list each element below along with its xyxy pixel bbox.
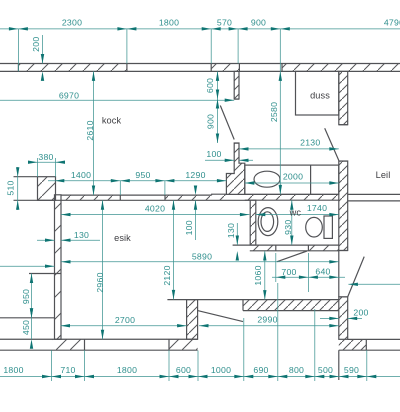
- ext top x=211.2: [210, 29, 212, 64]
- duss door jamb bottom: [339, 160, 348, 162]
- dim 100 band A line: [195, 200, 197, 240]
- corridor band jamb at door: [242, 300, 244, 311]
- svg-text:100: 100: [206, 149, 221, 159]
- dim 600 line: [217, 71, 219, 99]
- fixture: vanity sink ellipse: [254, 171, 280, 187]
- ext x=276 wc door: [275, 253, 277, 282]
- arrows dim 700/640: [276, 276, 286, 279]
- svg-text:800: 800: [289, 365, 304, 375]
- wall: esik bottom band hatch right pier: [169, 339, 198, 350]
- dim 1400/950/1290 chain line: [48, 180, 226, 182]
- svg-text:esik: esik: [114, 233, 131, 243]
- dim 2990 line: [199, 325, 339, 327]
- wall: Leil wall lower segment: [339, 297, 348, 339]
- arrows dim 1400/950/1290: [55, 179, 65, 182]
- wall: top exterior band outline: [0, 64, 400, 72]
- ext bottom x=366.8: [366, 350, 368, 381]
- wall: band B hatch: [245, 194, 339, 200]
- wall: wc left wall: [250, 200, 256, 245]
- svg-text:450: 450: [21, 320, 31, 335]
- window jamb far left: [17, 64, 19, 72]
- ext bottom x=84.5: [84, 350, 86, 381]
- svg-text:950: 950: [135, 170, 150, 180]
- svg-text:2960: 2960: [95, 272, 105, 292]
- svg-text:950: 950: [21, 289, 31, 304]
- arrow left room dim: [45, 265, 55, 268]
- wc door jamb left: [275, 245, 277, 251]
- ext bottom x=243.8: [243, 318, 245, 381]
- svg-text:500: 500: [318, 365, 333, 375]
- arrows dim 200 right: [329, 317, 339, 320]
- arrows dim 130: [45, 239, 55, 242]
- fixture: duss shower box: [296, 71, 339, 115]
- arrows dim 1060: [263, 251, 266, 261]
- arrows dim 380: [28, 161, 38, 164]
- window jamb W1 left: [126, 64, 128, 72]
- dim 5890 line: [61, 261, 339, 263]
- dim 6970 line: [0, 99, 234, 101]
- svg-text:930: 930: [283, 220, 293, 235]
- arrow dim 6970: [225, 99, 235, 102]
- wall: top band hatch pier 570: [211, 64, 239, 72]
- arrows bottom chain: [42, 375, 52, 378]
- kock door jamb bottom: [234, 142, 239, 144]
- fixture: vanity divider: [310, 165, 312, 194]
- wall: wc bottom band hatch right: [308, 245, 338, 251]
- arrows dim 510: [16, 167, 19, 177]
- svg-text:380: 380: [38, 152, 53, 162]
- arrows dim 900: [216, 99, 219, 109]
- dim 2000 line: [245, 182, 339, 184]
- arrows dim 2120: [172, 200, 175, 210]
- svg-text:4790: 4790: [384, 18, 400, 28]
- svg-text:590: 590: [344, 365, 359, 375]
- arrows dim 930: [290, 200, 293, 210]
- wall: corridor band hatch: [243, 300, 339, 311]
- svg-text:2000: 2000: [283, 171, 303, 181]
- svg-text:130: 130: [226, 223, 236, 238]
- svg-text:700: 700: [281, 267, 296, 277]
- wall: band A hatch right of door: [165, 195, 211, 200]
- wall: Leil partition lines to right: [348, 194, 400, 201]
- svg-text:1400: 1400: [71, 170, 91, 180]
- dim 1060 line: [264, 251, 266, 300]
- dim 100 kock wall lines: [205, 159, 253, 161]
- wall: Leil wall upper segment (top band to duss door): [339, 71, 348, 124]
- dim 1740 line: [256, 214, 339, 216]
- svg-text:200: 200: [31, 37, 41, 52]
- ext bottom x=51.5: [51, 350, 53, 381]
- wall: corridor band right of esik door outline: [167, 300, 338, 311]
- ext bottom x=198: [197, 351, 199, 382]
- dim 2960 line: [102, 200, 104, 339]
- arrows dim 100 band A: [194, 186, 197, 196]
- svg-text:690: 690: [253, 365, 268, 375]
- svg-text:2580: 2580: [269, 102, 279, 122]
- svg-text:900: 900: [206, 114, 216, 129]
- arrows dim 100 kock wall: [225, 159, 235, 162]
- arrows dim 2580: [279, 71, 282, 81]
- arrows dim 130 wc band: [236, 236, 239, 246]
- opening line left room upper: [29, 273, 61, 275]
- svg-text:200: 200: [353, 307, 368, 317]
- kock door jamb top: [234, 98, 239, 100]
- svg-text:1290: 1290: [185, 170, 205, 180]
- arrows dim 2610: [92, 71, 95, 81]
- dim to right of Leil door: [348, 283, 400, 285]
- wall: top band hatch right segment: [282, 64, 400, 72]
- ext x=55.5 block: [55, 158, 57, 177]
- arrows dim 4020: [61, 213, 71, 216]
- fixture: washing machine outer: [258, 208, 278, 236]
- duss door jamb top: [339, 124, 348, 126]
- wall: wc bottom band hatch left: [250, 245, 276, 251]
- wall: bottom right band outline: [339, 339, 400, 350]
- esik bottom window jamb right: [168, 339, 170, 350]
- arrows dim 2000: [245, 181, 255, 184]
- svg-text:2300: 2300: [62, 18, 82, 28]
- arrows dim 2700: [61, 324, 71, 327]
- svg-text:100: 100: [184, 220, 194, 235]
- svg-text:6970: 6970: [59, 90, 79, 100]
- esik bottom window jamb: [84, 339, 86, 350]
- ext x=37.5 block: [37, 158, 39, 177]
- wall: band A jog step: [212, 193, 227, 196]
- wall: kock right wall upper (above door): [234, 71, 239, 99]
- arrows dim 200 top: [41, 54, 44, 64]
- dim 4020 line: [61, 214, 249, 216]
- svg-text:710: 710: [60, 365, 75, 375]
- wall: esik bottom band hatch pier 710: [53, 339, 85, 350]
- wall: band A hatch left of door: [61, 195, 120, 200]
- dim 200 right lines: [320, 317, 362, 319]
- ext top x=18.4: [17, 29, 19, 72]
- arrows top chain: [9, 27, 19, 30]
- band A door jamb right: [164, 195, 166, 200]
- ext x=120.3 band A: [119, 181, 121, 195]
- svg-text:1000: 1000: [211, 365, 231, 375]
- arrows dim 450 left: [30, 308, 33, 318]
- fixture: toilet cistern: [324, 216, 332, 238]
- ext top x=238.1: [237, 29, 239, 64]
- door leaf: duss door: [325, 128, 339, 160]
- fixture: toilet bowl: [306, 217, 323, 237]
- ext bottom x=277.8: [277, 283, 279, 381]
- svg-text:600: 600: [176, 365, 191, 375]
- svg-text:510: 510: [6, 180, 16, 195]
- svg-text:4020: 4020: [145, 204, 165, 214]
- svg-text:130: 130: [74, 230, 89, 240]
- dim 2610 line: [93, 71, 95, 195]
- wall: esik bottom band outline: [0, 339, 198, 350]
- dim 130 lines: [37, 239, 100, 241]
- wall: band B wc top outline: [245, 194, 339, 200]
- dim chain bottom line: [0, 376, 400, 378]
- ext bottom x=169: [168, 350, 170, 381]
- Leil door left face line through opening: [338, 251, 340, 297]
- arrows dim 5890: [61, 260, 71, 263]
- dim 930 line: [291, 200, 293, 245]
- window jamb W2 left: [238, 64, 240, 72]
- kock counter line upper: [14, 176, 38, 178]
- arrow Leil right dim: [348, 283, 358, 286]
- dim 2120 line: [173, 200, 175, 299]
- window jamb W1 right: [210, 64, 212, 72]
- dim 2700 line: [61, 325, 187, 327]
- wall: pillar block kock bottom-left: [38, 177, 56, 201]
- svg-text:640: 640: [315, 266, 330, 276]
- svg-text:2120: 2120: [162, 265, 172, 285]
- svg-text:Leil: Leil: [376, 170, 391, 180]
- door leaf: esik bottom door: [198, 311, 243, 322]
- dim 950 left line: [31, 274, 33, 318]
- fixture: washing machine inner: [261, 212, 274, 232]
- dim 510 line: [17, 167, 19, 210]
- svg-text:2610: 2610: [85, 120, 95, 140]
- Leil door jamb top: [339, 250, 348, 252]
- svg-text:1060: 1060: [253, 265, 263, 285]
- door leaf: wc door: [277, 251, 307, 262]
- svg-text:2990: 2990: [257, 314, 277, 324]
- arrows dim 2990: [199, 324, 209, 327]
- arrows dim 2960: [101, 200, 104, 210]
- extension of wall edge below corner: [338, 350, 340, 380]
- svg-text:1800: 1800: [3, 365, 23, 375]
- svg-text:1800: 1800: [117, 365, 137, 375]
- dim 700/640 chain line: [272, 276, 345, 278]
- svg-text:1800: 1800: [159, 18, 179, 28]
- svg-text:2700: 2700: [115, 315, 135, 325]
- dim 2130 line: [239, 148, 339, 150]
- svg-text:600: 600: [205, 78, 215, 93]
- svg-text:2130: 2130: [300, 138, 320, 148]
- wall: band A kock/esik divider outline: [14, 195, 250, 200]
- ext top x=280.3 merged with 2580 dim line: [279, 29, 281, 195]
- arrows dim 2130: [239, 147, 249, 150]
- wall: wc bottom band outline: [233, 245, 339, 251]
- svg-text:kock: kock: [102, 116, 122, 126]
- wall: Leil wall middle segment: [339, 161, 348, 251]
- wc door jamb right: [307, 245, 309, 251]
- ext bottom x=314.8: [314, 309, 316, 381]
- arrows dim 1740: [256, 213, 265, 216]
- svg-text:570: 570: [217, 18, 232, 28]
- wall: bottom right band hatch corner: [339, 339, 367, 350]
- opening line left room lower: [0, 317, 55, 319]
- wall: kock right wall lower stepped piece: [226, 143, 244, 194]
- dim 200 ext line: [42, 35, 44, 64]
- dim 380 line: [28, 161, 65, 163]
- wall: esik left wall: [55, 195, 62, 339]
- bottom right window jamb: [365, 339, 367, 350]
- arrows dim 950 left: [30, 274, 33, 284]
- ext top x=126.9: [126, 29, 128, 64]
- fixture: vanity counter: [245, 165, 339, 194]
- svg-text:duss: duss: [310, 91, 330, 101]
- Leil door jamb bottom: [339, 296, 348, 298]
- svg-text:1740: 1740: [307, 203, 327, 213]
- door leaf: Leil door: [348, 257, 365, 297]
- band A door jamb left: [119, 195, 121, 200]
- svg-text:wc: wc: [289, 208, 302, 218]
- arrows dim 600: [216, 71, 219, 81]
- ext x=308.8 wc door: [307, 253, 309, 292]
- dim 900 line: [217, 99, 219, 143]
- dim 130 wc band line: [236, 223, 238, 245]
- dim chain top line: [0, 28, 400, 30]
- wall: step wall left of esik door: [187, 300, 198, 340]
- window jamb W2 right: [281, 64, 283, 72]
- ext x=164.9 band A: [164, 181, 166, 195]
- door leaf: kock door: [220, 106, 234, 140]
- svg-text:5890: 5890: [192, 251, 212, 261]
- wall: top band hatch left segment: [18, 64, 127, 72]
- dim 450 left line: [31, 318, 33, 339]
- dim line to left room: [0, 265, 55, 267]
- svg-text:900: 900: [251, 18, 266, 28]
